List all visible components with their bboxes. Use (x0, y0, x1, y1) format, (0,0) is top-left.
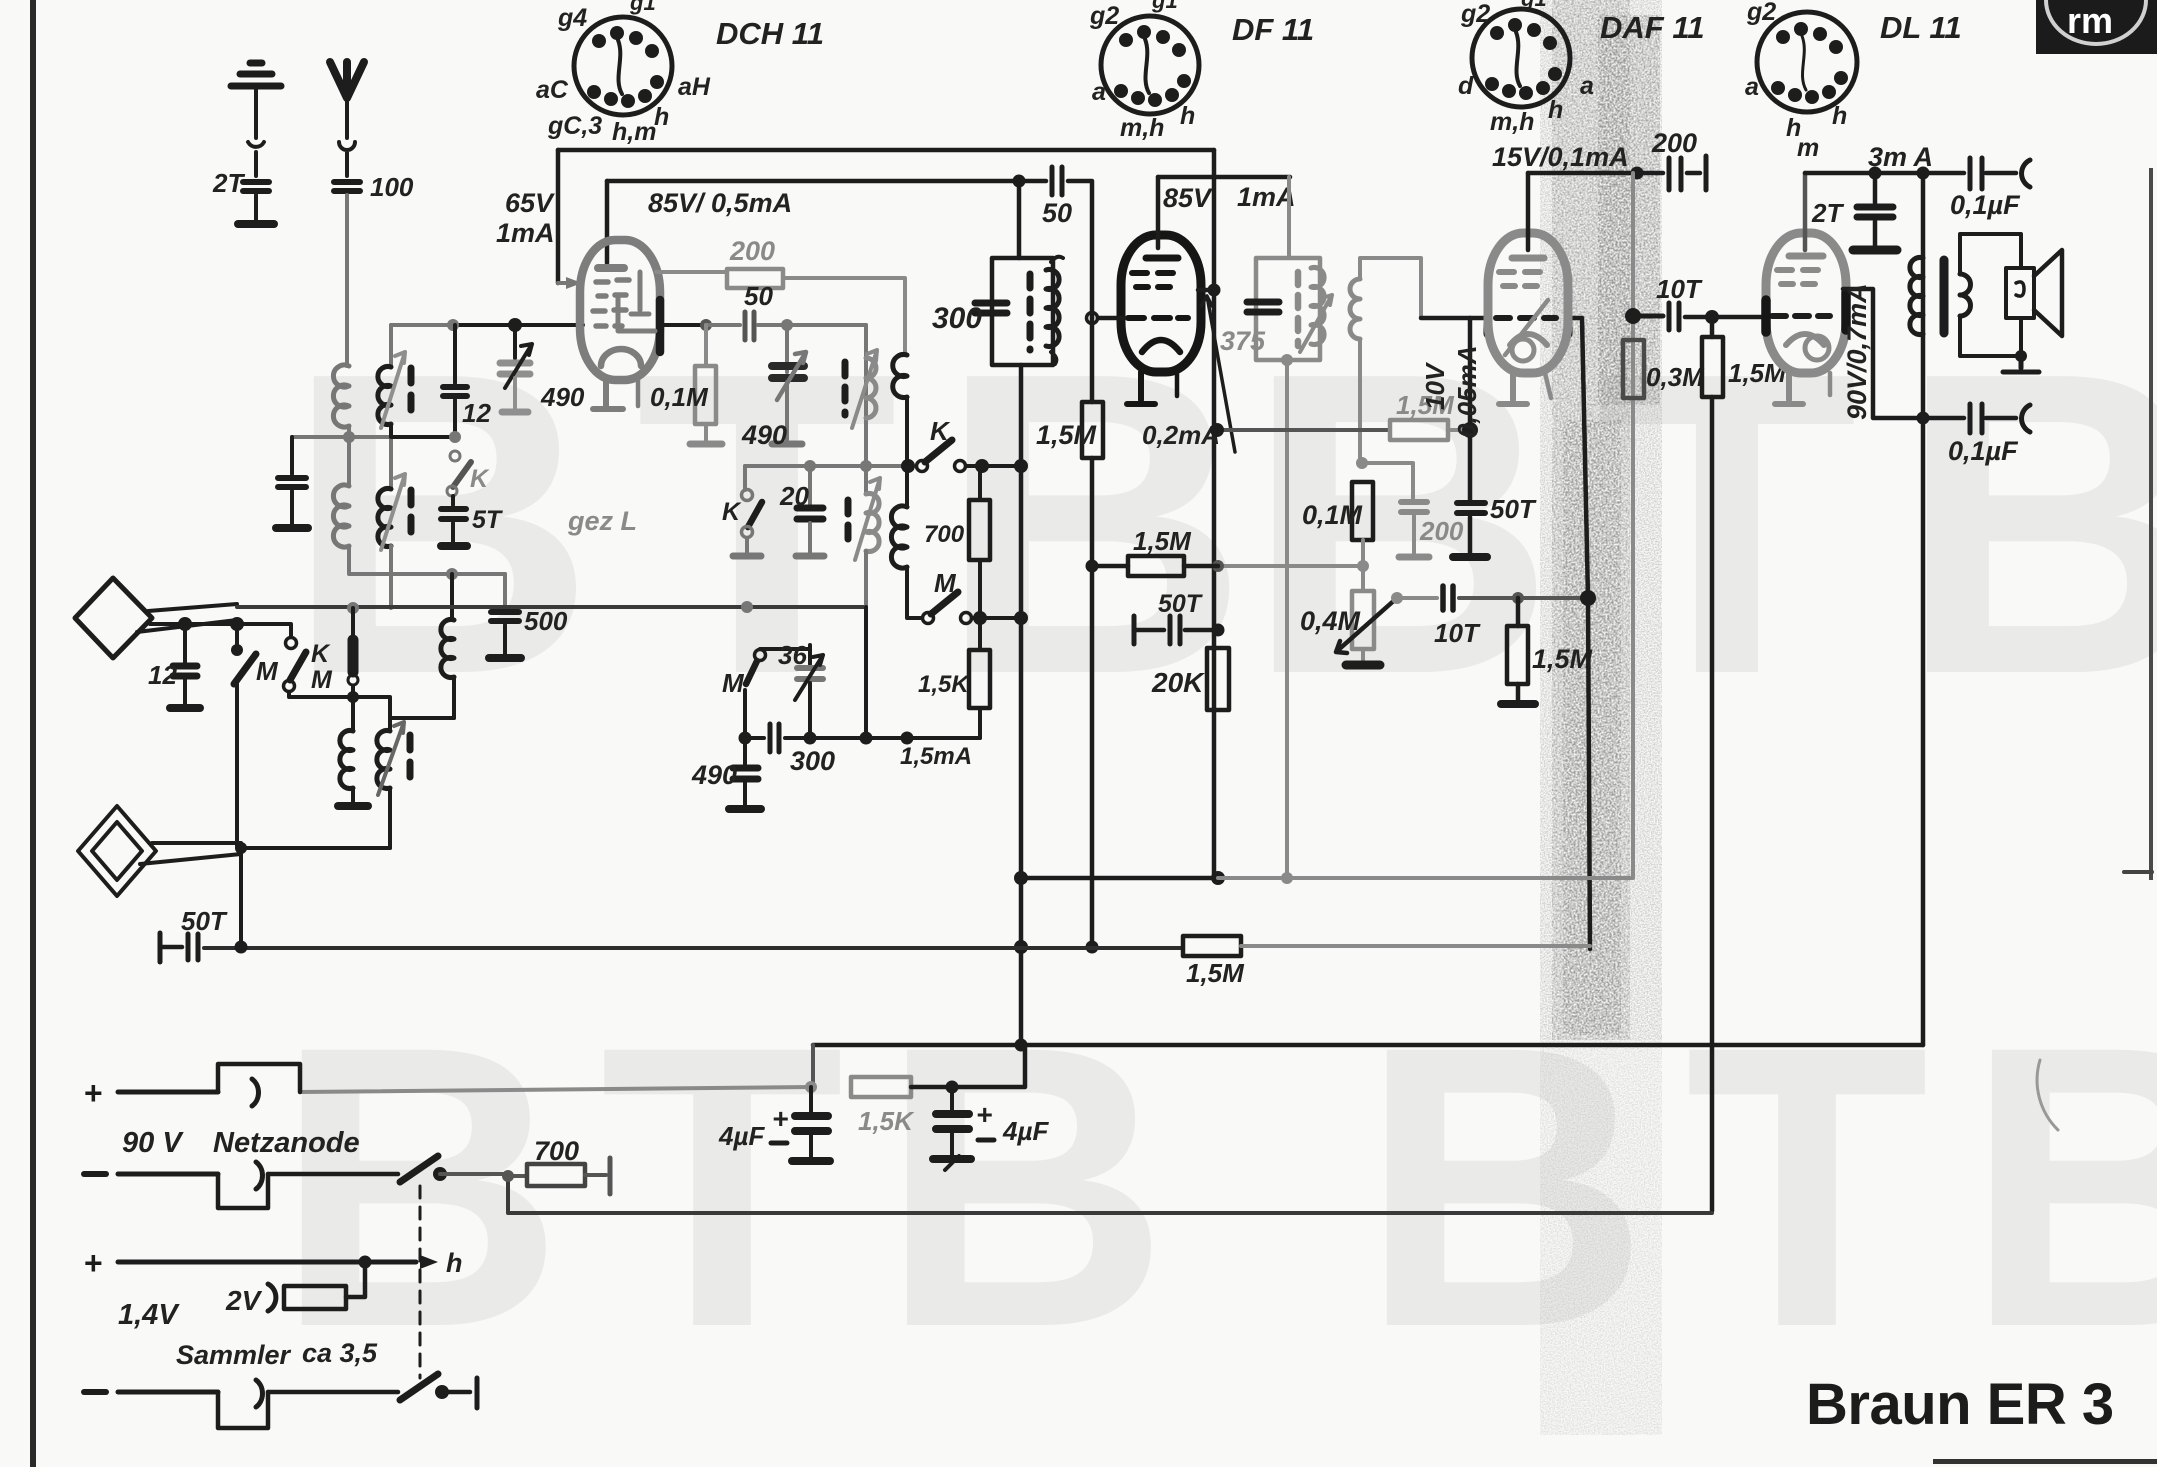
switch K (osc range) on y466 (917, 440, 1022, 473)
tube V3 DAF11 envelope (1488, 233, 1568, 373)
V4 wall crossings (1766, 292, 1846, 332)
speaker (2006, 250, 2062, 336)
node (1281, 872, 1293, 884)
wire grid arrow into DCH (558, 281, 568, 285)
tube socket U2 DF11 base diagram (1101, 16, 1199, 114)
capacitor C-left to ground (276, 437, 308, 528)
svg-text:10T: 10T (1434, 618, 1481, 648)
svg-text:a: a (1745, 73, 1759, 101)
wire y466 band rail (745, 464, 866, 468)
capacitor 200 (AF coupling top) (1637, 171, 1663, 176)
svg-text:BTB: BTB (275, 963, 1205, 1410)
fuse/lamp element x353 (348, 608, 358, 731)
svg-text:1,5K: 1,5K (918, 671, 970, 698)
svg-text:1mA: 1mA (496, 218, 555, 248)
frame aerial plug P2 (double diamond) (78, 806, 241, 896)
V2 top pin (1156, 177, 1161, 248)
svg-text:gez L: gez L (567, 506, 637, 536)
wire y437 link (292, 435, 391, 439)
trimmer 490 (osc padder) (772, 325, 806, 444)
resistor 700 vertical (969, 466, 990, 618)
node (1014, 940, 1028, 954)
wire x1588 (1582, 318, 1590, 949)
svg-text:85V: 85V (1163, 183, 1213, 213)
tube socket U1 DCH11 base diagram (574, 17, 672, 115)
resistor 0,1M (osc grid leak) (690, 325, 722, 444)
V2 cathode (1142, 340, 1180, 352)
svg-text:50T: 50T (1158, 590, 1204, 618)
0,2mA arrow (1201, 296, 1235, 452)
wire y738 + capacitor 300 (739, 724, 867, 752)
node (1013, 175, 1026, 188)
svg-text:+: + (976, 1099, 992, 1130)
page border bottom-right partial (1933, 1459, 2157, 1464)
V4 cathode (1786, 334, 1824, 345)
svg-text:85V/ 0,5mA: 85V/ 0,5mA (648, 188, 792, 218)
dashed gang link (419, 1186, 422, 1378)
wire 10V/0,05mA column x1470 (1468, 318, 1473, 500)
svg-text:0,3M: 0,3M (1646, 362, 1705, 392)
antenna A2 rod antenna (330, 62, 364, 191)
wire 15V feed (1528, 171, 1637, 176)
wire step to coil L2 bottom (353, 697, 454, 718)
tube socket U3 DAF11 base diagram (1472, 9, 1570, 107)
wire x1923 lower (1921, 418, 1926, 1045)
wire +90V feed (300, 1087, 811, 1092)
svg-text:50: 50 (1042, 198, 1072, 228)
svg-text:1,5M: 1,5M (1532, 644, 1593, 674)
svg-text:2T: 2T (1811, 198, 1844, 228)
capacitor 0,1uF top (1970, 158, 1982, 189)
svg-text:1,4V: 1,4V (118, 1299, 180, 1331)
node (230, 617, 244, 631)
svg-text:aC: aC (536, 76, 569, 104)
capacitor 20 (796, 466, 824, 556)
svg-text:+: + (84, 1075, 103, 1111)
svg-text:a: a (1092, 78, 1106, 106)
V4 pins (1775, 373, 1803, 404)
svg-text:1,5mA: 1,5mA (900, 743, 972, 770)
svg-text:0,2mA: 0,2mA (1142, 420, 1220, 450)
node (1086, 941, 1099, 954)
svg-text:g2: g2 (1746, 0, 1776, 26)
capacitor 12 (C padding) (443, 325, 467, 437)
switch K/M (antenna) (284, 638, 354, 698)
wire stub to IF2 top (1158, 175, 1290, 180)
wire y437 T1 bottom (391, 424, 455, 437)
capacitor 50 (osc grid) (582, 324, 584, 326)
svg-text:K: K (470, 465, 490, 493)
capacitor 10T (to DL grid) (1633, 314, 1663, 319)
svg-text:2T: 2T (212, 168, 245, 198)
rm logo badge (2036, 0, 2157, 54)
wire y878 rail (1021, 876, 1218, 881)
svg-text:g1: g1 (629, 0, 656, 15)
resistor 1,5M grid DF (1082, 402, 1103, 458)
node (347, 602, 359, 614)
svg-text:10V: 10V (1420, 361, 1450, 410)
trimmer capacitor 490 (left) (500, 325, 532, 412)
coil L2 (wave trap) (441, 574, 454, 718)
V4 top pin (1803, 173, 1808, 250)
tube V2 DF11 envelope (1121, 235, 1201, 372)
wire y947 AVC rail (158, 933, 163, 962)
V4 anode tap to output (1843, 289, 1964, 418)
battery terminal -90V (84, 1171, 106, 1177)
wire x607 DCH anode pin (605, 181, 610, 263)
svg-text:DL 11: DL 11 (1880, 10, 1962, 45)
main tuned wire y325 (391, 323, 453, 327)
wire y624 lower tail rail (150, 624, 291, 637)
svg-text:h: h (1180, 102, 1195, 130)
svg-text:1,5M: 1,5M (1186, 958, 1245, 988)
page border left (30, 0, 36, 1467)
tube V1 DCH11 envelope (580, 240, 660, 380)
svg-text:10T: 10T (1656, 274, 1703, 304)
tube V4 DL11 envelope (1766, 233, 1846, 373)
resistor 1,5K (decoupling) (851, 1077, 911, 1097)
svg-text:500: 500 (524, 606, 568, 636)
wire y848 (241, 846, 390, 850)
svg-text:h: h (1548, 96, 1563, 124)
node (1356, 457, 1368, 469)
svg-text:50: 50 (744, 281, 773, 311)
plug Sammler - (218, 1392, 268, 1428)
resistor 700 (dropper) (508, 1174, 527, 1178)
svg-text:4µF: 4µF (718, 1121, 765, 1151)
node (1211, 871, 1225, 885)
svg-text:2V: 2V (225, 1285, 263, 1316)
svg-text:490: 490 (691, 760, 737, 790)
svg-text:DCH 11: DCH 11 (716, 16, 824, 51)
svg-text:1,5K: 1,5K (858, 1106, 915, 1136)
svg-text:h: h (446, 1248, 463, 1278)
antenna plug P1 (diamond) (75, 578, 152, 658)
svg-text:15V/0,1mA: 15V/0,1mA (1492, 142, 1629, 172)
wire W1 top bus (DCH g to DF anode) (558, 148, 1214, 153)
svg-text:200: 200 (1651, 128, 1697, 158)
wire y566 (1218, 564, 1363, 568)
svg-text:g2: g2 (1089, 2, 1119, 30)
coil 700 (osc M) (891, 466, 907, 600)
svg-text:0,1M: 0,1M (1302, 500, 1363, 530)
node (1210, 423, 1224, 437)
capacitor 200 (shunt) (1362, 463, 1429, 557)
svg-text:65V: 65V (505, 188, 555, 218)
V2 pins (1127, 372, 1155, 404)
svg-text:1,5M: 1,5M (1133, 526, 1192, 556)
svg-text:36: 36 (778, 640, 807, 670)
resistor 1,5M horiz (DF grid return) (1092, 564, 1128, 569)
svg-text:490: 490 (741, 420, 787, 450)
V1 cathode (601, 349, 641, 366)
transformer T3 frame coil left (338, 731, 368, 806)
V3 grids (1499, 272, 1540, 286)
V1 pins (593, 378, 623, 409)
svg-text:5T: 5T (472, 506, 504, 534)
osc lower transformer (M band) (848, 466, 880, 607)
battery terminal -1,4V (84, 1389, 106, 1395)
svg-text:300: 300 (932, 302, 982, 335)
svg-text:h,m: h,m (612, 118, 656, 146)
node (343, 431, 355, 443)
tube socket U4 DL11 base diagram (1757, 12, 1857, 112)
plug Netzanode + (218, 1064, 300, 1092)
node (1014, 459, 1028, 473)
right edge tick (2124, 870, 2152, 874)
svg-text:M: M (256, 656, 279, 686)
V1 interior step to osc wire (618, 298, 655, 331)
capacitor 10T (AF coupling) (1391, 586, 1596, 610)
node (1625, 308, 1641, 324)
svg-text:M: M (722, 668, 745, 698)
page border right partial (2149, 168, 2153, 880)
svg-text:20: 20 (779, 481, 809, 511)
resistor 0,3M (1623, 340, 1644, 398)
svg-text:200: 200 (729, 236, 775, 266)
wire plug tails (137, 604, 237, 632)
svg-text:g2: g2 (1460, 0, 1490, 28)
svg-text:M: M (311, 666, 333, 694)
capacitor 4uF (right) (933, 1087, 971, 1170)
svg-text:g1: g1 (1151, 0, 1178, 13)
resistor 0,1M (det load) (1352, 482, 1373, 540)
svg-text:+: + (84, 1245, 103, 1281)
transformer T3 frame coil right (377, 718, 410, 848)
resistor 1,5M (AVC) (1183, 936, 1241, 956)
resistor 1,5K (969, 618, 990, 738)
wire x1214 column (1212, 150, 1217, 878)
wire y320 DAF grid (1421, 316, 1486, 321)
resistor 200 (osc anode) (656, 270, 727, 274)
svg-text:1mA: 1mA (1237, 182, 1296, 212)
svg-text:90 V: 90 V (122, 1127, 184, 1159)
resistor 1,5M (AVC to DAF) (1218, 428, 1390, 432)
IF transformer 375 (1256, 258, 1332, 360)
svg-text:490: 490 (540, 382, 585, 412)
svg-text:K: K (311, 640, 331, 668)
wire W2 (DCH anode to DF grid via C50) (607, 179, 1046, 184)
svg-text:K: K (930, 416, 951, 446)
switch M (osc) (907, 592, 1028, 625)
speaker ground (2003, 356, 2039, 372)
svg-text:50T: 50T (181, 906, 228, 936)
switch mains - (400, 1156, 438, 1182)
V1 screen lead (631, 272, 649, 314)
V4 anode (1789, 253, 1823, 260)
V2 grid tap (1087, 313, 1098, 324)
capacitor 4uF (left) (792, 1087, 830, 1161)
wire y173 output top (1805, 171, 1964, 176)
coil L1b antenna coil (333, 485, 349, 547)
svg-text:h: h (654, 103, 669, 131)
V1 anode (598, 264, 624, 272)
V3 anode (1512, 255, 1544, 262)
switch LT (400, 1374, 438, 1400)
V2 anode tap (1198, 288, 1214, 293)
svg-text:12: 12 (148, 660, 177, 690)
capacitor 50T (DAF cath) (1457, 503, 1485, 513)
switch K (osc) (733, 466, 762, 556)
svg-text:aH: aH (678, 73, 711, 101)
wire x558 drop (556, 150, 561, 283)
svg-text:50T: 50T (1490, 494, 1537, 524)
svg-text:gC,3: gC,3 (547, 112, 602, 140)
svg-text:200: 200 (1419, 516, 1464, 546)
svg-text:1,5M: 1,5M (1036, 420, 1097, 450)
node (446, 568, 458, 580)
wire x1092 down to AVC (1090, 318, 1095, 947)
svg-text:rm: rm (2067, 0, 2113, 41)
wire y607 long rail (237, 605, 866, 609)
svg-text:90V/0,7mA: 90V/0,7mA (1842, 283, 1872, 420)
V1 grids (596, 280, 629, 296)
svg-text:DF 11: DF 11 (1232, 12, 1314, 47)
V3 top pin (1526, 173, 1531, 250)
svg-text:4µF: 4µF (1002, 1116, 1049, 1146)
IF transformer 300 (975, 257, 1063, 365)
node (741, 601, 753, 613)
svg-text:0,1M: 0,1M (650, 382, 709, 412)
svg-text:100: 100 (370, 172, 414, 202)
node (1281, 354, 1293, 366)
switch K (band) with cap 5T (441, 451, 471, 546)
node (235, 842, 247, 854)
wire y331 to osc transformer (864, 325, 868, 464)
plug Netzanode - (218, 1174, 268, 1208)
transformer T1 tuned coil (378, 325, 411, 489)
output transformer primary (1910, 258, 1923, 335)
svg-text:a: a (1580, 72, 1594, 100)
transformer core (1940, 260, 1949, 333)
svg-text:700: 700 (924, 521, 965, 548)
capacitor 0,1uF bottom (1970, 404, 1982, 433)
wire x241 down to AVC rail (239, 848, 243, 947)
svg-text:Sammler: Sammler (176, 1340, 292, 1370)
svg-text:d: d (1458, 72, 1474, 100)
svg-text:0,1µF: 0,1µF (1948, 436, 2019, 466)
svg-text:g1: g1 (1520, 0, 1547, 11)
wire y1211 LT rail (508, 1176, 1712, 1213)
capacitor 50 coupling (1052, 167, 1062, 195)
wire x1923 (1921, 173, 1926, 418)
svg-text:DAF 11: DAF 11 (1600, 10, 1705, 45)
osc coil secondary (black) x905 upper (893, 355, 907, 467)
svg-text:ca 3,5: ca 3,5 (302, 1338, 378, 1368)
V3 pins (1499, 373, 1527, 404)
V2 anode (1146, 255, 1178, 262)
wire x1021 main column (1017, 181, 1022, 258)
svg-text:700: 700 (534, 1136, 579, 1166)
coil L1a antenna coil (333, 365, 349, 427)
svg-text:m: m (1797, 134, 1819, 162)
capacitor 50T (DF cath) (1134, 616, 1218, 644)
wire x1712 down (1710, 317, 1715, 1211)
transformer T2 coil (378, 474, 411, 608)
switch M (osc low) (745, 650, 766, 739)
antenna A1 earth/plate antenna (231, 63, 281, 224)
resistor 1,5M (AF grid) (1501, 598, 1535, 704)
capacitor 2T (1853, 173, 1897, 250)
node (1014, 871, 1028, 885)
wire x1633 AF column (1631, 173, 1635, 876)
svg-text:0,05mA: 0,05mA (1452, 346, 1482, 439)
svg-text:300: 300 (790, 746, 835, 776)
svg-text:h: h (1832, 102, 1847, 130)
svg-text:Netzanode: Netzanode (213, 1127, 360, 1159)
speaker circuit box (1960, 234, 2021, 274)
wire to y574 rail (349, 546, 505, 574)
node (1631, 167, 1644, 180)
cell 2V + resistor ca 3,5 (346, 1262, 365, 1297)
V4 grids (1777, 270, 1818, 284)
svg-text:375: 375 (1220, 326, 1266, 356)
wire y1045 HT rail (813, 1043, 1923, 1048)
svg-text:0,4M: 0,4M (1300, 606, 1361, 636)
wire x1287 to detector rail (1285, 360, 1289, 878)
coupling coil (det) (1350, 258, 1421, 463)
potentiometer 0,4M volume (1336, 540, 1398, 665)
svg-text:20K: 20K (1151, 667, 1205, 698)
osc transformer primary (gray coil+core) (845, 350, 877, 428)
osc lower coil bottom link (866, 607, 980, 738)
wire (347, 426, 351, 486)
svg-text:12: 12 (462, 398, 491, 428)
node (347, 691, 359, 703)
capacitor 490 to ground (osc) (729, 738, 761, 809)
capacitor 12 (antenna series) (170, 624, 200, 708)
resistor 20K (1207, 648, 1229, 710)
svg-text:M: M (934, 568, 957, 598)
svg-text:K: K (722, 498, 742, 526)
svg-text:Braun ER 3: Braun ER 3 (1806, 1372, 2114, 1437)
svg-text:+: + (772, 1103, 788, 1134)
switch M (antenna) (231, 624, 256, 848)
svg-text:m,h: m,h (1490, 108, 1534, 136)
trimmer 36 (760, 645, 823, 738)
svg-text:g4: g4 (557, 4, 587, 32)
V3 cathode + diode (1510, 334, 1547, 345)
V2 grids (1132, 273, 1173, 287)
scan smudge band (1540, 0, 1662, 1435)
svg-text:BTB: BTB (1360, 963, 2157, 1410)
node (178, 617, 192, 631)
output transformer secondary (1960, 274, 1971, 316)
resistor 1,5M (DL grid leak) (1702, 337, 1723, 397)
svg-text:0,1µF: 0,1µF (1950, 190, 2021, 220)
capacitor 500 (489, 574, 521, 658)
wire antenna lead x348 (345, 195, 349, 366)
svg-text:m,h: m,h (1120, 114, 1164, 142)
